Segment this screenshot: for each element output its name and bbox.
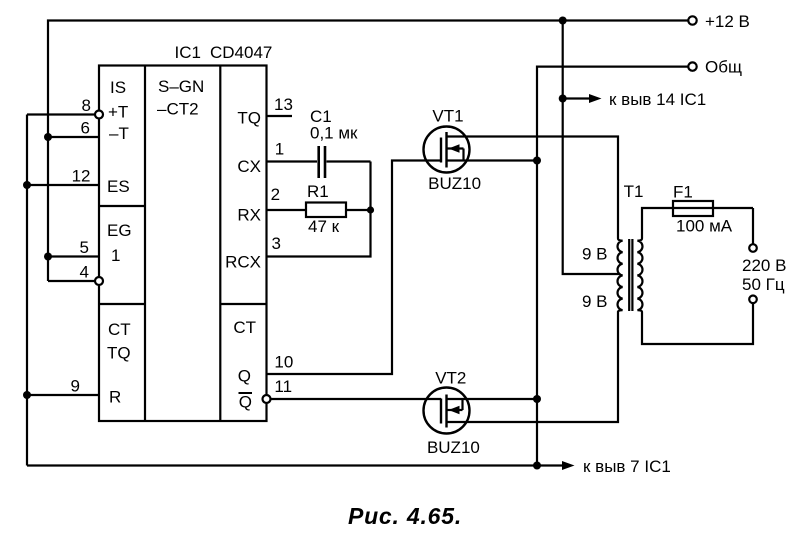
arrow к выв 14 IC1 <box>563 97 592 99</box>
pin 13 stub <box>267 115 293 117</box>
wire R1 right <box>346 209 371 211</box>
transformer T1 primary winding <box>618 239 623 313</box>
svg-text:100 мА: 100 мА <box>676 217 733 236</box>
IC1 left column divider 2 <box>99 303 145 305</box>
svg-text:F1: F1 <box>673 183 693 202</box>
capacitor C1 <box>317 146 320 178</box>
pin 11 circle <box>263 395 271 403</box>
wire secondary bottom to 220V bottom terminal <box>642 303 753 344</box>
terminal Общ <box>688 62 696 70</box>
svg-text:50 Гц: 50 Гц <box>742 275 785 294</box>
svg-text:к выв 7 IC1: к выв 7 IC1 <box>583 457 671 476</box>
svg-text:к выв 14 IC1: к выв 14 IC1 <box>609 90 706 109</box>
pin 8 circle <box>95 111 103 119</box>
svg-text:47 к: 47 к <box>308 217 340 236</box>
wire pin 1 to C1 <box>267 160 318 162</box>
svg-text:–CT2: –CT2 <box>157 100 199 119</box>
IC U1 IC1 CD4047 outer box <box>99 66 267 422</box>
svg-text:Общ: Общ <box>705 58 742 77</box>
svg-text:8: 8 <box>82 96 91 115</box>
wire pin 12 <box>27 184 99 186</box>
wire C1 right <box>327 160 371 162</box>
svg-text:9 В: 9 В <box>582 292 608 311</box>
junction dot pin 6 <box>44 133 52 141</box>
svg-text:9 В: 9 В <box>582 245 608 264</box>
wire ground left vertical <box>26 115 28 466</box>
pin 4 circle <box>95 277 103 285</box>
fuse F1 <box>673 201 713 216</box>
svg-text:ES: ES <box>107 177 130 196</box>
junction dot pin 9 <box>23 391 31 399</box>
wire pin 8 <box>27 113 95 115</box>
terminal 220V bottom <box>749 296 757 304</box>
svg-text:13: 13 <box>274 95 293 114</box>
junction dot bottom ground <box>533 462 541 470</box>
terminal +12 В <box>688 16 696 24</box>
wire VT1 source to Общ rail <box>447 159 538 161</box>
svg-text:VT1: VT1 <box>432 107 463 126</box>
svg-text:9: 9 <box>71 377 80 396</box>
svg-text:T1: T1 <box>624 182 644 201</box>
svg-text:RX: RX <box>237 206 261 225</box>
wire bottom ground line <box>27 464 537 466</box>
svg-text:10: 10 <box>274 353 293 372</box>
svg-text:220 В: 220 В <box>742 256 786 275</box>
IC1 left column divider 1 <box>99 205 145 207</box>
svg-text:R1: R1 <box>307 182 329 201</box>
wire VT2 source to Общ rail <box>447 398 538 400</box>
terminal 220V top <box>749 244 757 252</box>
svg-text:IS: IS <box>110 78 126 97</box>
junction dot VT1 source <box>533 157 541 165</box>
transistor VT1 <box>424 127 470 173</box>
wire pin 3 and RC vertical <box>267 162 371 257</box>
svg-text:11: 11 <box>274 377 292 396</box>
wire fuse to 220V top terminal <box>752 208 754 244</box>
svg-text:EG: EG <box>107 221 132 240</box>
wire +12V top rail with left drop <box>48 21 688 282</box>
svg-text:TQ: TQ <box>107 344 131 363</box>
wire pin 6 <box>48 136 99 138</box>
svg-text:12: 12 <box>72 167 91 186</box>
junction dot VT2 source <box>533 395 541 403</box>
junction dot +12V top <box>559 17 567 25</box>
svg-text:2: 2 <box>271 185 280 204</box>
wire VT2 drain to transformer bottom <box>447 312 619 423</box>
svg-text:Q: Q <box>239 393 252 412</box>
svg-text:0,1 мк: 0,1 мк <box>310 124 358 143</box>
svg-text:CX: CX <box>237 157 261 176</box>
svg-text:IC1CD4047: IC1CD4047 <box>175 43 273 62</box>
svg-text:+12 В: +12 В <box>705 12 750 31</box>
svg-text:+T: +T <box>108 103 128 122</box>
wire pin 5 <box>48 255 99 257</box>
transformer T1 secondary winding <box>637 239 642 313</box>
svg-text:3: 3 <box>272 234 281 253</box>
wire secondary top to fuse <box>642 208 673 239</box>
wire pin 4 <box>48 280 95 282</box>
svg-text:–T: –T <box>109 124 129 143</box>
svg-text:VT2: VT2 <box>435 369 466 388</box>
svg-text:BUZ10: BUZ10 <box>428 174 481 193</box>
wire pin 11 to VT2 gate <box>271 398 442 400</box>
svg-text:S–GN: S–GN <box>158 77 204 96</box>
transistor VT2 <box>424 388 470 434</box>
wire pin 2 to R1 <box>267 209 307 211</box>
wire pin 10 to VT1 gate <box>267 161 442 375</box>
svg-text:6: 6 <box>81 119 90 138</box>
transformer T1 core <box>628 239 630 311</box>
svg-text:RCX: RCX <box>225 253 261 272</box>
IC1 inner right column line <box>219 66 221 422</box>
svg-text:1: 1 <box>111 246 120 265</box>
arrow к выв 7 IC1 <box>537 464 564 466</box>
svg-text:1: 1 <box>275 140 284 159</box>
junction dot R1 <box>367 206 374 213</box>
IC1 right column divider <box>220 303 266 305</box>
junction dot k vyv 14 <box>559 95 567 103</box>
svg-text:Q: Q <box>238 367 251 386</box>
svg-text:CT: CT <box>233 318 256 337</box>
junction dot pin 5 <box>44 253 52 261</box>
svg-text:TQ: TQ <box>237 109 261 128</box>
svg-text:5: 5 <box>80 238 89 257</box>
wire VT1 drain to transformer top <box>447 137 619 239</box>
junction dot pin 12 <box>23 181 31 189</box>
wire +12V vertical rail to transformer center tap <box>563 21 619 275</box>
wire Общ <box>537 67 688 466</box>
svg-text:R: R <box>109 388 121 407</box>
svg-text:Рис. 4.65.: Рис. 4.65. <box>348 503 462 529</box>
svg-text:BUZ10: BUZ10 <box>427 438 480 457</box>
svg-text:4: 4 <box>80 263 89 282</box>
IC1 inner left column line <box>144 66 146 422</box>
resistor R1 <box>306 203 346 218</box>
svg-text:CT: CT <box>108 320 131 339</box>
wire pin 9 <box>27 394 99 396</box>
